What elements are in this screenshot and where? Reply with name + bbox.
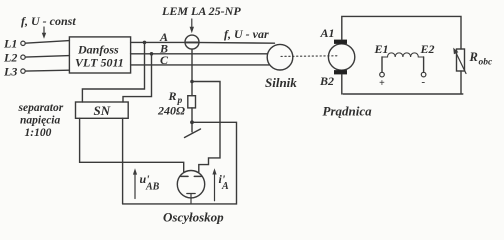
generator Pradnica: [328, 44, 354, 70]
node on phase A: [143, 41, 147, 45]
svg-text:Danfoss: Danfoss: [77, 43, 119, 57]
CRT right plate: [194, 175, 202, 177]
node iA branch: [190, 80, 194, 84]
arrow to L1 wire: [43, 27, 45, 35]
winding terminal +: [381, 57, 383, 72]
svg-text:E2: E2: [420, 42, 435, 56]
wire L2: [25, 56, 69, 58]
wire B2 to bottom rail: [342, 71, 463, 94]
current transducer LEM: [185, 35, 199, 49]
Robc adjust arrow: [456, 52, 467, 74]
wire node to oscilloscope right edge: [123, 122, 237, 204]
terminal L2: [21, 55, 25, 59]
shaft dotted: [281, 55, 338, 58]
wire A1 to top rail: [342, 16, 461, 49]
svg-text:L1: L1: [3, 37, 17, 51]
load resistor Robc: [457, 49, 465, 71]
brush A1: [334, 40, 347, 44]
wire SN right output down: [122, 118, 124, 204]
svg-text:B2: B2: [319, 74, 334, 88]
arrow u'AB: [134, 173, 136, 199]
wire node B to SN: [123, 54, 152, 102]
svg-text:SN: SN: [94, 103, 111, 118]
svg-text:f, U - var: f, U - var: [224, 27, 269, 41]
svg-text:A: A: [221, 181, 229, 192]
wire phase A: [131, 41, 275, 44]
svg-text:Oscyłoskop: Oscyłoskop: [163, 210, 224, 225]
svg-text:C: C: [160, 53, 169, 67]
svg-text:VLT 5011: VLT 5011: [75, 56, 124, 70]
arrow i'A: [214, 173, 216, 201]
svg-text:L2: L2: [3, 51, 17, 65]
svg-text:240Ω: 240Ω: [157, 104, 185, 118]
inverter box Danfoss VLT 5011: [69, 37, 130, 73]
svg-text:LEM LA 25-NP: LEM LA 25-NP: [161, 4, 241, 18]
node switch: [190, 120, 194, 124]
wire SN left output to CRT plate: [80, 118, 184, 176]
resistor Rp: [188, 96, 196, 108]
motor Silnik: [267, 44, 293, 70]
svg-text:L3: L3: [3, 65, 17, 79]
svg-text:+: +: [379, 78, 385, 89]
svg-text:napięcia: napięcia: [20, 115, 60, 127]
wire L1: [25, 41, 69, 44]
terminal L1: [21, 41, 25, 45]
svg-text:R: R: [469, 50, 478, 64]
svg-text:1:100: 1:100: [25, 127, 52, 139]
svg-text:-: -: [422, 76, 426, 88]
brush B2: [334, 70, 347, 74]
wire Rp to switch node: [191, 108, 193, 132]
voltage separator box SN: [76, 102, 129, 118]
inductor coil: [382, 53, 424, 57]
node on phase B: [150, 52, 154, 56]
svg-text:Prądnica: Prądnica: [323, 104, 373, 119]
arrow to LEM: [191, 19, 193, 29]
svg-text:Silnik: Silnik: [265, 75, 297, 90]
wire L3: [25, 69, 69, 72]
wire phase B: [131, 53, 268, 55]
svg-text:R: R: [168, 89, 177, 103]
wire LEM down to Rp: [191, 49, 193, 96]
winding terminal -: [423, 57, 425, 72]
wire node A to SN: [82, 42, 144, 102]
oscilloscope CRT: [177, 171, 204, 198]
switch blade: [185, 129, 201, 138]
CRT left plate: [181, 175, 189, 177]
svg-text:E1: E1: [374, 42, 389, 56]
svg-text:separator: separator: [18, 102, 64, 114]
svg-text:obc: obc: [479, 58, 494, 68]
wire phase C: [131, 64, 270, 66]
svg-text:AB: AB: [145, 182, 160, 193]
CRT gun electrode: [187, 194, 195, 204]
svg-text:f, U - const: f, U - const: [21, 14, 76, 28]
wire iA to oscilloscope: [192, 82, 220, 177]
terminal L3: [21, 69, 25, 73]
svg-text:A1: A1: [320, 26, 335, 40]
